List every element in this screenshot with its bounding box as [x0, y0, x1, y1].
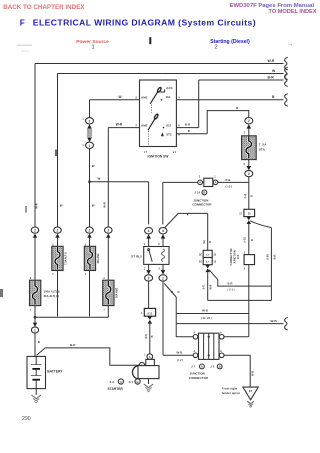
svg-text:W: W: [92, 164, 95, 168]
wire grid bottom-right to ground E7: [224, 355, 250, 387]
junction arrows below S12: [148, 316, 153, 320]
junction connector J14 left circle A: [198, 180, 203, 185]
svg-text:2: 2: [215, 45, 218, 51]
wire oval1 down to fuse 100A: [34, 238, 37, 280]
wire B bus from IG1: [176, 98, 283, 101]
wire grid top-right to J12 drop: [224, 335, 249, 338]
svg-text:W-B: W-B: [271, 319, 278, 323]
svg-text:B: B: [251, 195, 254, 197]
svg-text:2: 2: [89, 229, 91, 233]
svg-text:P-B: P-B: [226, 178, 231, 182]
connector oval battery: [31, 327, 38, 333]
junction connector J13 grid block: [199, 333, 220, 359]
svg-text:CONNECTOR: CONNECTOR: [189, 376, 209, 380]
svg-text:→: →: [287, 41, 294, 48]
arrow into left oval: [146, 234, 151, 238]
ignition switch dashed link 2: [147, 131, 149, 147]
svg-text:2: 2: [57, 229, 59, 233]
junction connector arrows below J5: [247, 217, 252, 221]
svg-text:J 2: J 2: [210, 365, 214, 369]
svg-text:J 7: J 7: [191, 365, 195, 369]
svg-text:40A AM1: 40A AM1: [97, 253, 100, 264]
svg-text:A: A: [194, 332, 196, 335]
svg-text:1: 1: [92, 45, 95, 51]
wire fuse ALT-S down to bus: [56, 271, 59, 317]
wire branch B-R from stacked connector: [209, 270, 271, 286]
svg-text:S 1: S 1: [129, 380, 134, 384]
svg-text:7.5A ALT-S: 7.5A ALT-S: [65, 252, 68, 265]
svg-text:∗1: ∗1: [173, 151, 177, 154]
svg-text:4: 4: [162, 229, 164, 233]
svg-text:AM1: AM1: [141, 96, 148, 100]
svg-text:W-B: W-B: [209, 284, 212, 289]
svg-text:J12: J12: [237, 254, 240, 259]
svg-text:B: B: [137, 380, 139, 384]
svg-text:IG2: IG2: [166, 123, 171, 127]
wire to J13 grid top row: [176, 335, 193, 338]
junction arrows below stacked boxes: [205, 265, 210, 269]
junction connector J12 box: [244, 255, 254, 265]
junction connector J14 row wire: [163, 181, 249, 184]
connector box J5: [244, 209, 255, 216]
J13 grid terminal circle bottom-right: [219, 353, 224, 358]
wire vertical from W-R bus to fuse 100A: [34, 64, 37, 228]
connector box S12: [144, 308, 155, 316]
fuse 100A ALT: [30, 280, 41, 305]
faint smudge top left: [17, 45, 32, 47]
svg-text:Starting (Diesel): Starting (Diesel): [210, 39, 250, 45]
wire AM1 W: [90, 98, 140, 101]
J13 grid terminal circle top-right: [219, 335, 224, 340]
column divider tick: [149, 37, 151, 44]
svg-text:BACK TO CHAPTER INDEX: BACK TO CHAPTER INDEX: [3, 4, 85, 11]
svg-text:W-B: W-B: [251, 371, 254, 376]
wire W-R bus (top): [35, 62, 284, 65]
svg-text:2: 2: [34, 229, 36, 233]
wire B-R vertical riser: [197, 80, 200, 128]
svg-text:E7: E7: [249, 389, 253, 393]
ignition switch dashed link 1: [151, 104, 153, 112]
wire oval3 down to fuse AM1: [88, 238, 91, 247]
svg-text:EWD307F Pages From Manual: EWD307F Pages From Manual: [230, 3, 315, 9]
wire oval2 down to fuse ALT-S: [56, 238, 59, 247]
scan mark left edge 2: [0, 289, 3, 297]
svg-text:2E: 2E: [199, 253, 202, 256]
node W branch junction: [88, 180, 91, 183]
svg-text:2G: 2G: [199, 261, 202, 264]
connector oval ST relay feed left: [145, 228, 153, 234]
fuse 40A AM1: [84, 246, 95, 270]
wire below J12 down: [247, 265, 250, 337]
wire down to starter terminal: [148, 324, 151, 354]
connector box 2G: [203, 258, 212, 265]
ignition switch lever AM2: [148, 119, 155, 130]
J13 grid terminal circle bottom-left: [193, 353, 198, 358]
ignition switch IG2 terminal: [163, 127, 165, 129]
continuation brace B bus: [285, 94, 288, 106]
svg-text:A: A: [220, 332, 222, 335]
svg-text:2: 2: [89, 119, 91, 123]
svg-text:2: 2: [248, 172, 250, 176]
svg-text:J 14: J 14: [194, 191, 200, 195]
svg-text:2: 2: [148, 276, 150, 280]
svg-text:STA: STA: [259, 148, 266, 152]
fuse 30A AM2: [103, 280, 114, 305]
connector oval above fuse STA: [245, 118, 253, 124]
wire B-R loop bottom: [208, 299, 272, 302]
junction connector J14 right circle A: [213, 180, 218, 185]
svg-text:W: W: [60, 204, 63, 208]
starter terminal circle 30: [139, 362, 145, 368]
arrow into right oval: [161, 234, 166, 238]
wire ST2 B: [176, 132, 207, 135]
svg-text:(G): (G): [203, 240, 206, 244]
scan mark left edge 1: [55, 150, 57, 157]
svg-text:S 2: S 2: [110, 380, 115, 384]
wire relay right output straight down: [162, 281, 165, 355]
svg-text:W: W: [92, 204, 95, 208]
svg-text:A: A: [194, 350, 196, 353]
svg-text:ST RLY: ST RLY: [131, 254, 143, 258]
svg-text:2: 2: [248, 119, 250, 123]
svg-text:IGNITION SW: IGNITION SW: [148, 155, 169, 159]
svg-text:B-R: B-R: [268, 76, 275, 80]
fuse 7.5A STA: [242, 136, 257, 160]
svg-text:Front right: Front right: [222, 387, 237, 391]
wire W below connector pair: [88, 149, 91, 228]
svg-text:JUNCTION: JUNCTION: [193, 198, 208, 202]
fuse 7.5A ALT-S: [52, 246, 63, 270]
connector arrow up into oval: [247, 124, 252, 128]
svg-text:(I-G): (I-G): [244, 237, 247, 242]
connector box 2E: [203, 250, 212, 257]
wire B-R loop left vertical: [206, 272, 209, 300]
wire from J14 row down left corner: [161, 182, 164, 224]
svg-text:2: 2: [107, 229, 109, 233]
speck above switch: [166, 79, 167, 80]
svg-text:ST2: ST2: [166, 133, 172, 137]
wire fuse AM1 down to bus: [88, 271, 91, 317]
svg-text:B: B: [209, 241, 212, 243]
svg-text:1: 1: [89, 144, 91, 148]
svg-text:W-B: W-B: [202, 309, 208, 313]
wire W-B vertical 176: [175, 297, 178, 337]
starter field crescent: [132, 366, 138, 379]
wire W branch to ST relay: [90, 180, 149, 183]
svg-text:AM2: AM2: [141, 123, 148, 127]
relay contact: [148, 249, 150, 251]
connector oval left column 2: [54, 227, 62, 233]
svg-text:Power Source: Power Source: [76, 39, 109, 45]
svg-text:BATTERY: BATTERY: [47, 369, 63, 373]
wire AM2 W-R: [108, 126, 139, 129]
wire W-B upper horizontal: [176, 312, 249, 315]
wire B-R loop right vertical: [270, 228, 273, 301]
ignition switch IG1 terminal: [161, 99, 163, 101]
connector pair IH arrow down: [87, 138, 92, 142]
wire W branch down: [147, 182, 150, 225]
wire branch diagonal to B-R loop: [250, 221, 271, 228]
J13 grid terminal circle top-left: [193, 335, 198, 340]
connector pair IH dotted strip: [87, 129, 92, 138]
svg-text:JUNCTION: JUNCTION: [190, 372, 205, 376]
continuation brace W-R bus: [285, 57, 288, 69]
svg-text:W-R: W-R: [116, 123, 123, 127]
svg-text:( I/1, I/3 ): ( I/1, I/3 ): [201, 317, 212, 320]
svg-text:(ST): (ST): [145, 334, 148, 339]
starter terminal circle 50: [147, 354, 153, 360]
svg-text:A: A: [120, 380, 122, 384]
svg-text:B: B: [177, 291, 180, 293]
relay ST RLY box: [144, 247, 169, 265]
wire fuse 30A AM2 to bus: [107, 306, 110, 318]
wire ST to starter (via S12): [147, 281, 150, 308]
wire from stacked connector to relay oval (diagonal): [164, 213, 207, 228]
svg-text:7. 5A: 7. 5A: [259, 143, 267, 147]
relay output oval right: [159, 275, 167, 281]
ground chevrons E7: [247, 401, 254, 404]
wire from relay left branch to grid bottom-left: [163, 354, 193, 357]
ignition switch ST2 terminal arrow: [161, 132, 164, 136]
svg-text:30A AM2: 30A AM2: [116, 287, 119, 298]
scan mark left edge 3: [25, 206, 27, 213]
ignition switch SW box: [140, 80, 177, 147]
starter motor body: [138, 366, 159, 379]
continuation brace W-B: [285, 318, 288, 330]
wire W-R vertical down to fuse 30A AM2: [107, 128, 110, 227]
connector pair IH bottom oval: [86, 142, 94, 148]
connector oval left column 1: [31, 227, 39, 233]
relay output oval left: [145, 275, 153, 281]
svg-text:( I-2 ): ( I-2 ): [177, 359, 183, 362]
wire main down from J5 to J12: [247, 224, 250, 255]
connector oval left column 4: [105, 227, 113, 233]
svg-text:TO MODEL INDEX: TO MODEL INDEX: [269, 9, 317, 15]
ground triangle E7: [243, 387, 258, 400]
svg-text:290: 290: [22, 416, 31, 422]
connector pair IH top oval: [86, 118, 94, 124]
wire oval4 down to fuse 30A AM2: [107, 238, 110, 280]
battery cells: [31, 364, 42, 366]
wire ST2 riser to STA fuse: [207, 111, 249, 134]
battery box: [27, 356, 46, 388]
arrow into battery oval: [33, 323, 37, 327]
svg-text:F: F: [20, 19, 25, 28]
connector pair IH arrow up: [87, 124, 92, 128]
svg-text:(I-B): (I-B): [266, 254, 269, 259]
wire W-B out to right brace: [176, 322, 283, 325]
svg-text:B-R: B-R: [185, 123, 191, 127]
wire fuse 100A to node: [34, 306, 37, 318]
svg-text:W-B: W-B: [177, 351, 183, 355]
wire vertical AM1 W down: [88, 100, 91, 118]
svg-text:ACC: ACC: [166, 86, 173, 90]
wire ST down from oval: [247, 177, 250, 210]
connector oval left column 3: [86, 227, 94, 233]
svg-text:STARTER: STARTER: [108, 387, 124, 391]
wire oval to battery: [34, 333, 37, 356]
svg-text:W: W: [98, 177, 101, 181]
svg-text:2: 2: [162, 276, 164, 280]
starter magnetic switch box: [146, 359, 155, 365]
wire IG2 B-R: [176, 126, 198, 129]
svg-text:W-R: W-R: [268, 59, 275, 63]
node battery junction: [34, 316, 37, 319]
ignition switch lever AM1: [150, 92, 157, 104]
svg-text:CONNECTOR: CONNECTOR: [192, 203, 212, 207]
continuation brace W bus: [285, 67, 288, 79]
connector oval ST relay feed right: [159, 228, 167, 234]
junction connector J14 box: [204, 178, 213, 186]
svg-text:IG1: IG1: [166, 95, 171, 99]
wire B-R bus: [199, 79, 284, 82]
svg-text:A: A: [220, 350, 222, 353]
svg-text:1: 1: [34, 329, 36, 333]
wire relay right output diagonal branch: [164, 284, 176, 298]
svg-text:B-R: B-R: [70, 343, 76, 347]
arrows into relay output ovals: [146, 270, 151, 274]
svg-text:B: B: [151, 335, 154, 337]
wire bottom bus joining fuses: [35, 316, 108, 319]
svg-text:4: 4: [148, 229, 150, 233]
starter ground: [147, 379, 150, 384]
wire W bus: [58, 72, 284, 75]
svg-text:( 2-1 ): ( 2-1 ): [228, 289, 235, 292]
wire stacked connector vertical: [206, 213, 209, 250]
svg-text:W: W: [119, 95, 122, 99]
svg-text:fender apron: fender apron: [222, 391, 241, 395]
relay output wires: [147, 264, 150, 270]
svg-text:ELECTRICAL WIRING DIAGRAM (Sys: ELECTRICAL WIRING DIAGRAM (System Circui…: [33, 18, 256, 28]
svg-text:B: B: [251, 239, 254, 241]
wire vertical from W bus to fuse ALT: [56, 74, 59, 228]
relay coil: [162, 249, 165, 262]
continuation brace B-R bus: [285, 74, 288, 86]
battery ground: [35, 389, 38, 395]
svg-text:(I-4): (I-4): [244, 194, 247, 199]
svg-text:(I-T): (I-T): [203, 284, 206, 289]
wire battery B-R cable to starter: [37, 348, 140, 365]
